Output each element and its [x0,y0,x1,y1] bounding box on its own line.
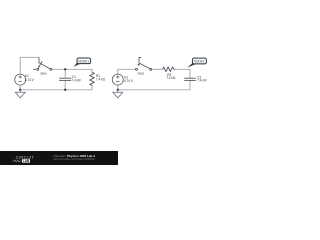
wire C1 branch top [64,69,66,78]
svg-text:SW1: SW1 [40,71,47,75]
svg-text:http://circuitlab.com/c/pdqmc5: http://circuitlab.com/c/pdqmc5u55d4j [53,157,95,161]
logo LAB box [22,159,30,162]
svg-text:NODE2: NODE2 [194,60,205,64]
junction node top C1 [64,68,66,70]
wire V1 top to switch [20,57,39,74]
junction node bottom C1 [64,89,66,91]
svg-text:LAB: LAB [23,159,30,163]
capacitor C1 [59,78,71,80]
SW2 arrowhead [137,63,140,66]
svg-text:SW2: SW2 [137,71,144,75]
node label NODE1 [74,58,91,67]
capacitor C2 [184,78,196,80]
wire R2 to C2 corner [175,69,190,78]
wire bottom run [20,86,92,90]
wire V2 top to switch [118,69,136,74]
logo zigzag [13,160,22,162]
node label NODE2 [187,58,206,68]
ground left [15,90,25,98]
wire V2 bottom [117,85,119,90]
svg-text:7.4 kΩ: 7.4 kΩ [166,76,176,80]
junction node V2 ground [117,89,119,91]
watermark bar [0,151,118,165]
wire V1 bottom [19,85,21,90]
resistor R1 [90,72,94,86]
switch SW1 [33,57,52,70]
resistor R2 [163,67,176,71]
switch SW2 [136,58,152,71]
SW1 arrowhead [38,64,41,67]
svg-text:7.4 kΩ: 7.4 kΩ [96,78,106,82]
svg-text:NODE1: NODE1 [78,60,89,64]
svg-text:4.74 V: 4.74 V [25,78,35,82]
ground right [113,90,123,98]
voltage source V1 [15,74,26,85]
wire switch to R1 top [52,69,92,72]
wire switch to R2 [152,68,163,70]
junction node V1 ground [19,89,21,91]
voltage source V2 [112,74,123,85]
wire C2 bottom to V2 [118,80,190,89]
svg-text:4.74 V: 4.74 V [124,79,134,83]
svg-text:7.4 mF: 7.4 mF [71,79,81,83]
svg-text:7.4 mF: 7.4 mF [197,79,207,83]
wire C1 branch bottom [64,80,66,89]
